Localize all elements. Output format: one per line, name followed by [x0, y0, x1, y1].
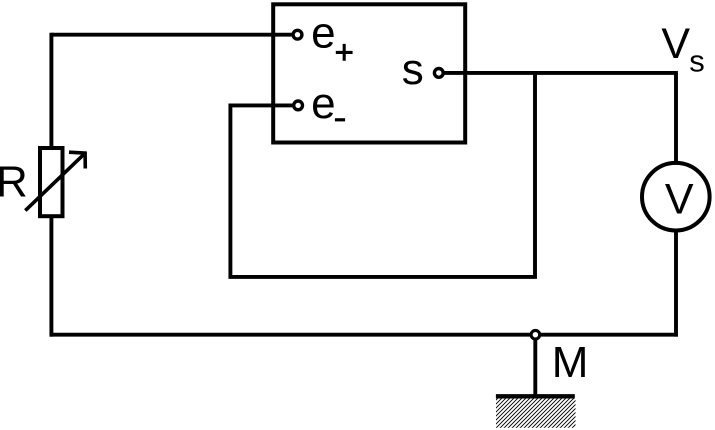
resistor R variable arrow [25, 154, 84, 210]
svg-text:R: R [0, 158, 28, 207]
ground hatch [496, 399, 576, 428]
terminal e- [294, 101, 303, 110]
svg-text:V: V [661, 20, 690, 68]
svg-text:e: e [311, 9, 335, 58]
resistor R body [40, 148, 63, 216]
svg-text:e: e [311, 79, 335, 128]
voltmeter V [642, 163, 710, 231]
ground bar [496, 394, 575, 398]
amplifier block U1 [273, 4, 465, 142]
wire e+ input from left branch to e+ terminal [51, 33, 292, 37]
terminal s [434, 69, 443, 78]
wire bottom rail [50, 333, 678, 337]
wire left vertical branch through R [49, 33, 53, 337]
svg-text:M: M [552, 338, 589, 387]
terminal e+ [293, 30, 302, 39]
wire right vertical to voltmeter [674, 73, 678, 337]
wire ground stem from node M [533, 335, 537, 397]
svg-text:s: s [689, 43, 705, 78]
svg-text:V: V [665, 176, 694, 224]
wire feedback s to e- [230, 73, 535, 277]
svg-text:s: s [402, 45, 424, 94]
wire s output to Vs corner [445, 71, 678, 75]
node M [531, 330, 540, 339]
